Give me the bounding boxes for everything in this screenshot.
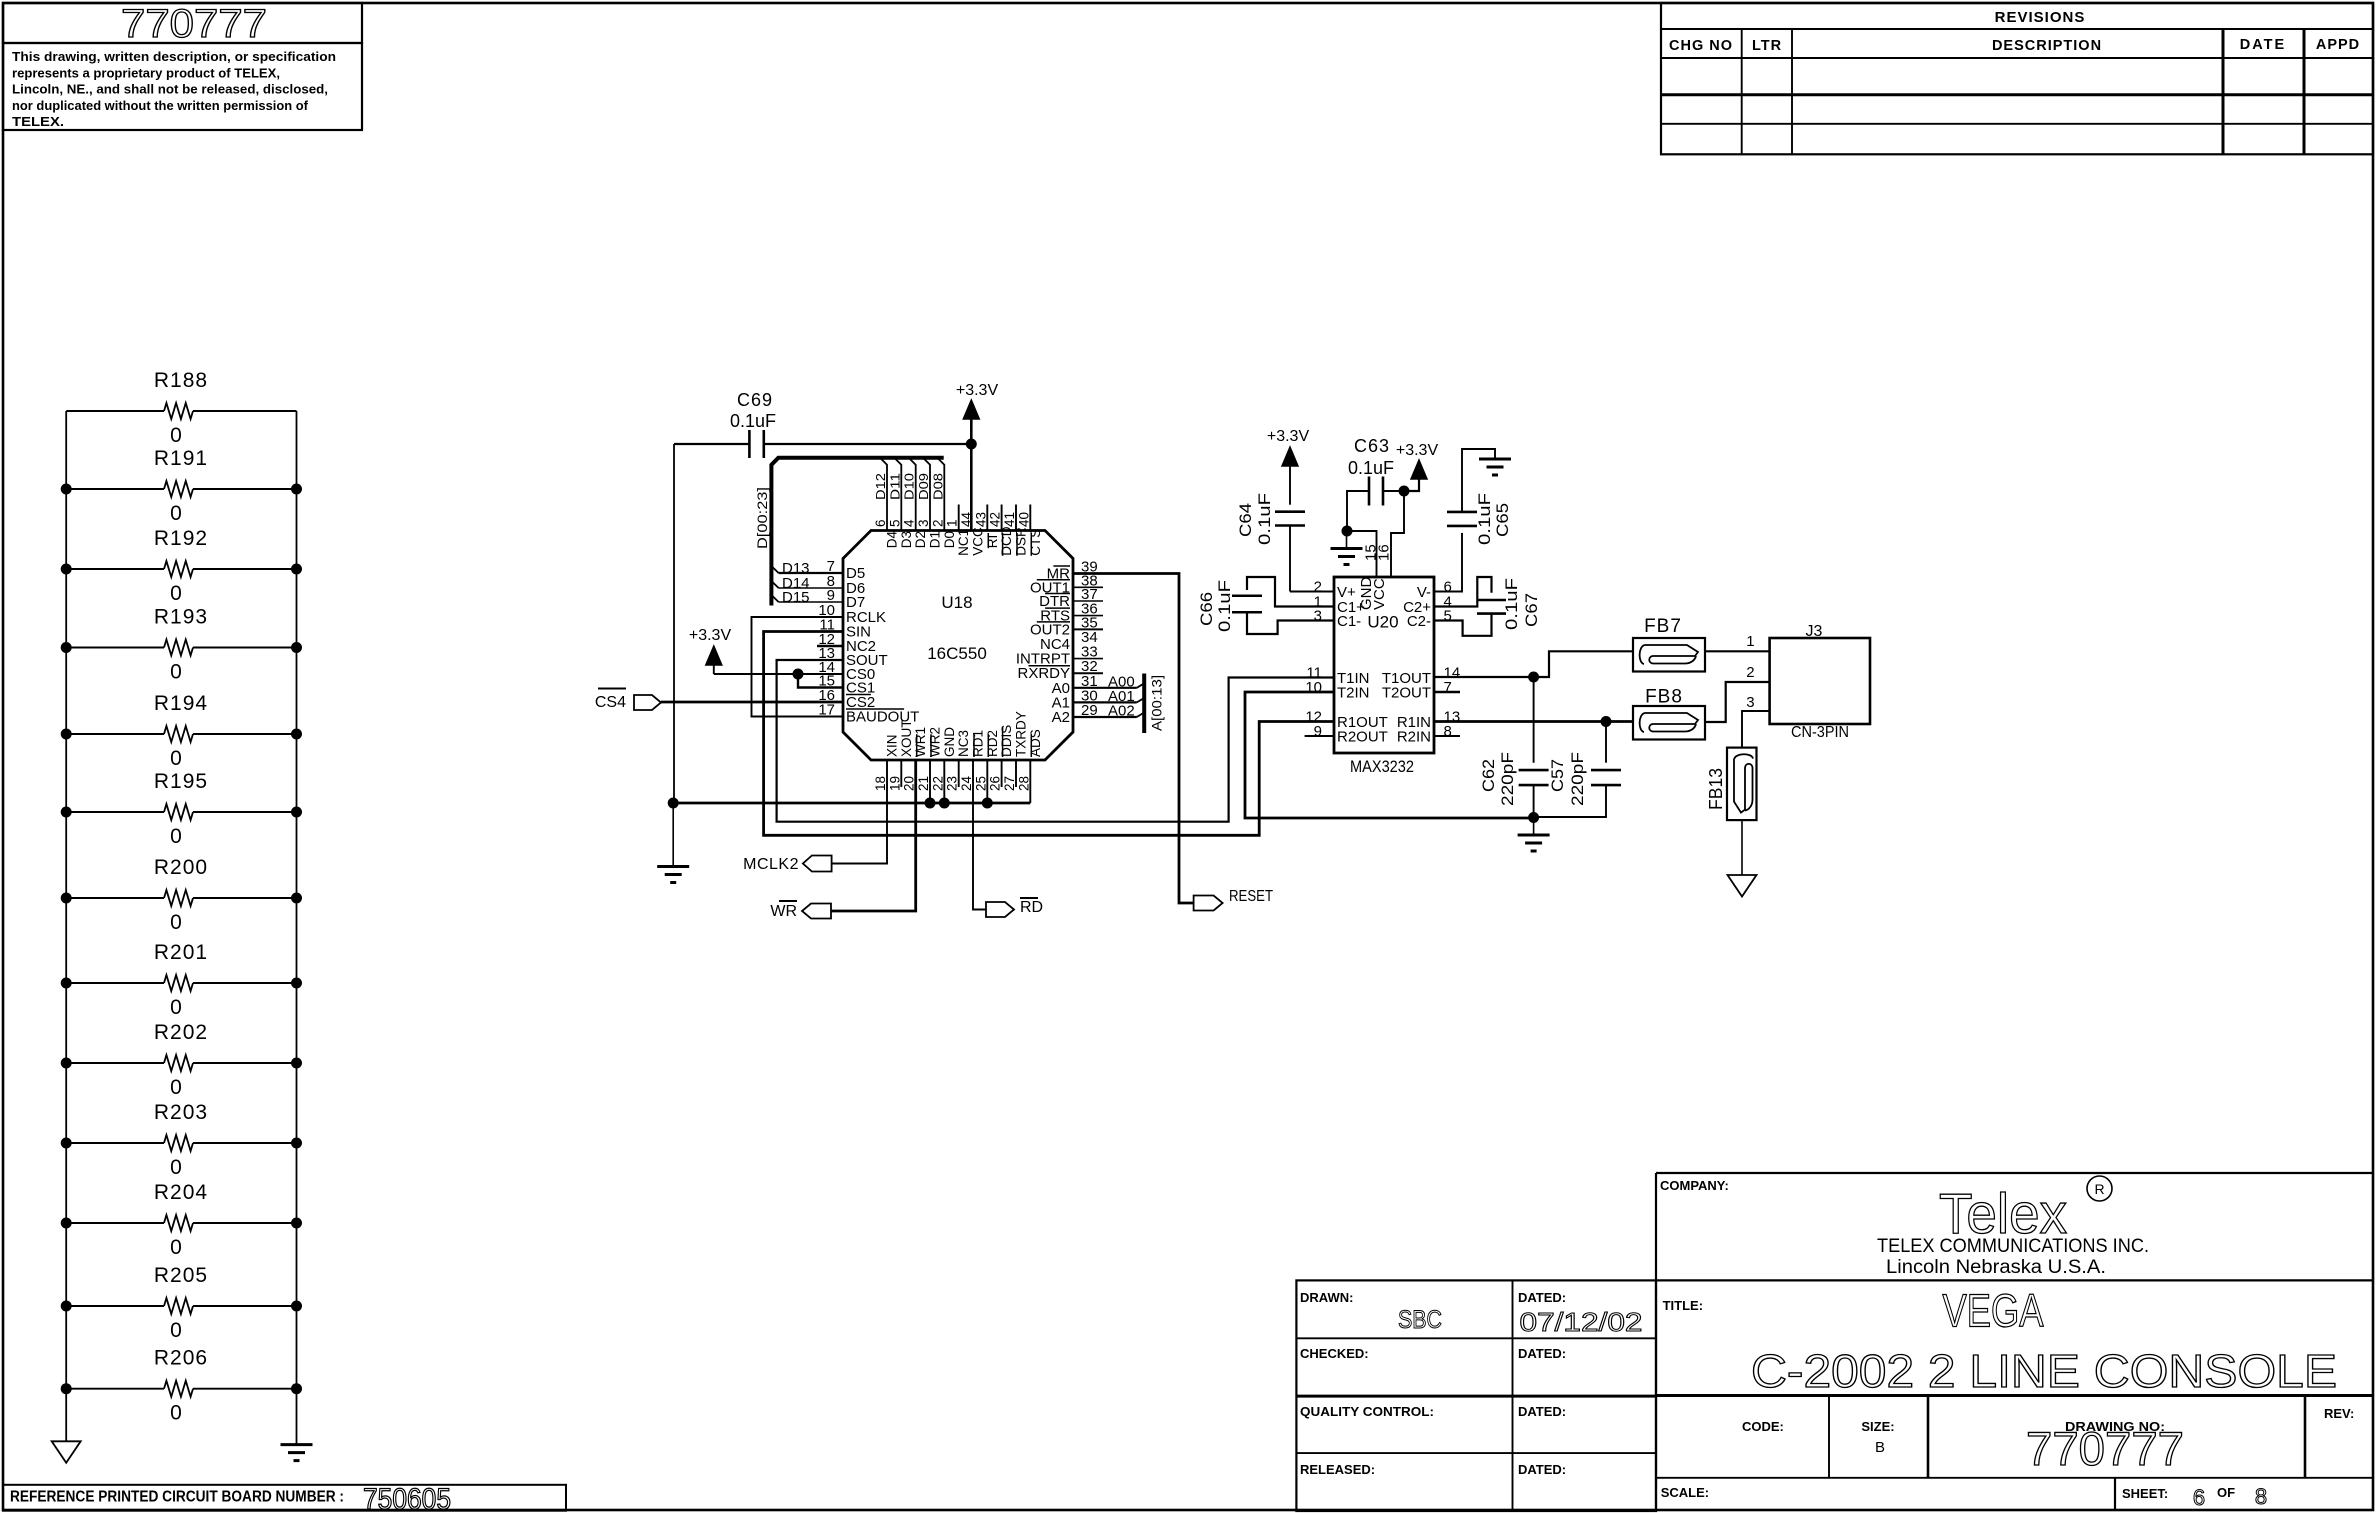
svg-text:FB8: FB8 [1645, 687, 1683, 708]
svg-text:REV:: REV: [2324, 1406, 2354, 1421]
svg-text:0.1uF: 0.1uF [1348, 458, 1394, 478]
svg-text:DCD: DCD [999, 526, 1014, 555]
resistor R195 [66, 811, 164, 813]
left rail wire [65, 411, 67, 1441]
svg-text:RD: RD [1020, 899, 1043, 916]
capacitor C57 220pF [1605, 722, 1607, 763]
svg-text:RESET: RESET [1229, 888, 1273, 905]
svg-text:D08: D08 [930, 473, 945, 500]
connector J3 CN-3PIN [1770, 638, 1870, 724]
svg-text:CODE:: CODE: [1742, 1419, 1784, 1434]
ground (earth) C65 [1479, 458, 1511, 461]
svg-text:1: 1 [1746, 633, 1754, 650]
svg-text:0: 0 [170, 911, 182, 934]
resistor R202 [66, 1062, 164, 1064]
svg-text:22: 22 [930, 776, 945, 791]
resistor R200 [66, 897, 164, 899]
svg-text:CHECKED:: CHECKED: [1300, 1346, 1369, 1361]
svg-text:C67: C67 [1522, 593, 1541, 627]
svg-text:TXRDY: TXRDY [1014, 711, 1029, 757]
wire FB8 to J3 pin 2 [1705, 682, 1770, 722]
junction dots R195 [61, 807, 72, 818]
capacitor C64 0.1uF and +3.3V (V+) [1282, 447, 1298, 466]
wire WR2 to ground net [929, 760, 931, 803]
reference pcb number strip [3, 1485, 566, 1511]
revisions table [1661, 3, 2373, 154]
svg-text:DATED:: DATED: [1518, 1346, 1566, 1361]
capacitor C65 0.1uF (V-) [1434, 533, 1462, 592]
svg-text:0: 0 [170, 661, 182, 684]
svg-text:C-2002 2 LINE CONSOLE: C-2002 2 LINE CONSOLE [1751, 1345, 2337, 1397]
svg-text:SHEET:: SHEET: [2122, 1486, 2168, 1501]
ferrite bead FB13 [1727, 748, 1757, 821]
svg-text:2: 2 [1746, 664, 1754, 681]
bus entries A00,A01,A02 from pins 31,30,29 [1073, 687, 1137, 689]
svg-text:0: 0 [170, 747, 182, 770]
bus entry wires D08-D12 to pins 2-6 [880, 458, 887, 531]
junction dot VCC [966, 439, 977, 450]
svg-text:DESCRIPTION: DESCRIPTION [1992, 38, 2102, 54]
svg-text:A[00:13]: A[00:13] [1149, 675, 1165, 731]
svg-text:CS4: CS4 [595, 694, 626, 711]
resistor R205 [66, 1305, 164, 1307]
svg-text:41: 41 [1002, 512, 1017, 527]
svg-text:6: 6 [873, 519, 888, 527]
svg-text:28: 28 [1016, 776, 1031, 791]
bus entry wires D13,D14,D15 to pins 7,8,9 [779, 572, 843, 574]
svg-text:A02: A02 [1108, 703, 1135, 720]
svg-text:R206: R206 [154, 1347, 208, 1370]
svg-text:TITLE:: TITLE: [1663, 1298, 1703, 1313]
power +3.3V (VCC) [963, 400, 979, 419]
svg-text:D0: D0 [942, 531, 957, 548]
svg-text:OF: OF [2217, 1485, 2235, 1500]
svg-text:D4: D4 [885, 530, 900, 548]
svg-text:C69: C69 [737, 390, 773, 410]
junction dots R191 [61, 484, 72, 495]
svg-text:R: R [2094, 1181, 2104, 1197]
svg-text:CN-3PIN: CN-3PIN [1791, 724, 1849, 741]
svg-text:DRAWN:: DRAWN: [1300, 1290, 1353, 1305]
svg-text:R192: R192 [154, 527, 208, 550]
svg-text:R2OUT: R2OUT [1337, 729, 1388, 746]
svg-text:Lincoln Nebraska U.S.A.: Lincoln Nebraska U.S.A. [1886, 1257, 2106, 1278]
ground (earth) C63 [1346, 531, 1348, 549]
wire C63 right to +3.3V junction [1383, 490, 1404, 492]
svg-text:COMPANY:: COMPANY: [1660, 1178, 1729, 1193]
svg-text:0: 0 [170, 424, 182, 447]
bus A[00:13] [1142, 674, 1146, 734]
svg-text:D12: D12 [873, 473, 888, 500]
svg-text:RELEASED:: RELEASED: [1300, 1462, 1375, 1477]
junction dots R202 [61, 1058, 72, 1069]
svg-text:C65: C65 [1493, 503, 1512, 537]
svg-text:40: 40 [1016, 512, 1031, 527]
resistor R191 [66, 488, 164, 490]
ground net wire (bottom of U18) [673, 802, 1030, 805]
svg-text:DATED:: DATED: [1518, 1290, 1566, 1305]
wire gnd junction to GND pin 15 [1347, 531, 1377, 577]
resistor R201 [66, 982, 164, 984]
svg-text:U20: U20 [1367, 613, 1398, 632]
svg-text:8: 8 [2255, 1484, 2267, 1509]
svg-text:SBC: SBC [1398, 1306, 1442, 1334]
svg-text:MAX3232: MAX3232 [1350, 757, 1414, 776]
svg-text:DATED:: DATED: [1518, 1462, 1566, 1477]
svg-text:8: 8 [1444, 723, 1452, 740]
svg-text:WR: WR [770, 903, 797, 920]
wire CS4 to CS2 [661, 701, 843, 704]
svg-text:D[00:23]: D[00:23] [754, 487, 770, 549]
svg-text:R200: R200 [154, 856, 208, 879]
svg-text:21: 21 [916, 776, 931, 791]
svg-text:R2IN: R2IN [1397, 729, 1431, 746]
wire RD2 to ground net [986, 760, 988, 803]
svg-text:4: 4 [902, 519, 917, 527]
svg-text:R205: R205 [154, 1264, 208, 1287]
junction dots R193 [61, 642, 72, 653]
wire GND to ground net [943, 760, 945, 803]
svg-text:D3: D3 [899, 531, 914, 548]
svg-text:J3: J3 [1806, 623, 1823, 640]
svg-text:770777: 770777 [2026, 1422, 2184, 1475]
svg-text:3: 3 [916, 519, 931, 527]
svg-text:7: 7 [1444, 679, 1452, 696]
svg-text:0: 0 [170, 1236, 182, 1259]
svg-text:REVISIONS: REVISIONS [1995, 9, 2086, 26]
svg-text:19: 19 [887, 776, 902, 791]
svg-text:APPD: APPD [2316, 37, 2360, 53]
svg-text:DATED:: DATED: [1518, 1404, 1566, 1419]
svg-text:DATE: DATE [2240, 37, 2286, 53]
svg-text:D11: D11 [887, 473, 902, 500]
svg-text:770777: 770777 [121, 2, 267, 46]
svg-text:R188: R188 [154, 369, 208, 392]
resistor R193 [66, 647, 164, 649]
ground (triangle) FB13 [1741, 820, 1743, 875]
junction dots R206 [61, 1383, 72, 1394]
svg-text:R193: R193 [154, 606, 208, 629]
capacitor C69 0.1uF [748, 430, 751, 458]
wire junction to VCC pin 16 [1391, 491, 1404, 577]
svg-text:3: 3 [1746, 694, 1754, 711]
svg-text:26: 26 [988, 776, 1003, 791]
svg-text:0.1uF: 0.1uF [1215, 580, 1234, 632]
svg-text:TELEX.: TELEX. [12, 115, 64, 129]
junction dots ground net [668, 798, 679, 809]
junction dots R203 [61, 1138, 72, 1149]
svg-text:16C550: 16C550 [927, 644, 987, 663]
svg-text:FB13: FB13 [1706, 768, 1726, 810]
svg-text:B: B [1875, 1439, 1885, 1456]
wire C63 left to ground [1347, 491, 1369, 531]
svg-text:C2-: C2- [1407, 613, 1431, 630]
svg-text:0: 0 [170, 1402, 182, 1425]
svg-text:CHG NO: CHG NO [1669, 38, 1733, 54]
wire CS0 junction to CS1 [798, 674, 843, 688]
right rail wire [296, 411, 298, 1445]
svg-text:D10: D10 [902, 473, 917, 500]
proprietary notice box [3, 43, 362, 130]
junction dots R201 [61, 978, 72, 989]
junction dots R205 [61, 1301, 72, 1312]
svg-text:+3.3V: +3.3V [689, 627, 732, 644]
svg-text:6: 6 [2193, 1485, 2205, 1510]
junction dot C63 gnd [1342, 526, 1353, 537]
ferrite bead FB8 [1633, 706, 1705, 740]
svg-text:C63: C63 [1354, 436, 1390, 456]
svg-text:DSR: DSR [1014, 527, 1029, 556]
junction dots R194 [61, 729, 72, 740]
junction dot C62/C57 ground [1528, 812, 1539, 823]
wire T1OUT to FB7 [1434, 676, 1534, 678]
resistor R194 [66, 733, 164, 735]
svg-text:LTR: LTR [1752, 38, 1782, 54]
svg-text:220pF: 220pF [1498, 752, 1517, 806]
svg-text:CTS: CTS [1028, 529, 1043, 556]
svg-text:XOUT: XOUT [899, 719, 914, 757]
svg-text:represents a proprietary produ: represents a proprietary product of TELE… [12, 66, 280, 80]
U20 MAX3232 RS-232 transceiver [1334, 577, 1434, 753]
svg-text:0.1uF: 0.1uF [1502, 578, 1521, 630]
svg-text:GND: GND [942, 727, 957, 757]
svg-text:0: 0 [170, 1076, 182, 1099]
svg-text:3: 3 [1314, 608, 1322, 625]
svg-text:R204: R204 [154, 1181, 208, 1204]
wire C69 right to +3.3V junction [764, 443, 972, 445]
svg-text:2: 2 [930, 519, 945, 527]
svg-text:R195: R195 [154, 770, 208, 793]
svg-text:D1: D1 [928, 531, 943, 548]
svg-text:0: 0 [170, 996, 182, 1019]
svg-text:25: 25 [973, 776, 988, 791]
resistor R192 [66, 568, 164, 570]
svg-text:This drawing, written descript: This drawing, written description, or sp… [12, 50, 336, 64]
svg-text:0.1uF: 0.1uF [1475, 493, 1494, 545]
capacitor C62 220pF [1533, 677, 1535, 763]
junction dots R204 [61, 1218, 72, 1229]
wire +3.3V to VCC pin 44 [970, 444, 973, 531]
U18 16C550 UART package [843, 531, 1073, 761]
svg-text:U18: U18 [941, 593, 972, 612]
junction dots R192 [61, 564, 72, 575]
signal flag RD and wire to RD1 [973, 760, 986, 910]
svg-text:0.1uF: 0.1uF [730, 411, 776, 431]
svg-text:5: 5 [1444, 608, 1452, 625]
svg-text:+3.3V: +3.3V [1267, 428, 1310, 445]
svg-text:D2: D2 [913, 531, 928, 548]
signal flag MCLK2 and wire to XIN [832, 760, 887, 864]
svg-text:D15: D15 [782, 589, 810, 606]
capacitor C67 0.1uF (C2+/C2-) [1434, 577, 1492, 607]
signal flag RESET and wire from MR [1073, 574, 1194, 904]
svg-text:16: 16 [1376, 544, 1393, 561]
svg-text:XIN: XIN [885, 734, 900, 757]
svg-text:C1-: C1- [1337, 613, 1361, 630]
junction dot T1OUT [1528, 672, 1539, 683]
resistor R203 [66, 1142, 164, 1144]
svg-text:750605: 750605 [363, 1483, 451, 1513]
svg-text:A2: A2 [1052, 709, 1070, 726]
junction dots R200 [61, 893, 72, 904]
svg-text:ADS: ADS [1028, 729, 1043, 757]
wire SOUT net (to T1IN) [777, 660, 1334, 822]
signal flag WR and wire to WR1 [831, 760, 916, 911]
svg-text:R194: R194 [154, 692, 208, 715]
svg-text:C62: C62 [1479, 759, 1498, 792]
svg-text:VCC: VCC [1371, 578, 1388, 610]
svg-text:FB7: FB7 [1644, 616, 1682, 637]
svg-text:MCLK2: MCLK2 [743, 856, 799, 873]
bus D[00:23] [771, 458, 943, 606]
junction dot R1IN [1601, 716, 1612, 727]
svg-text:T2OUT: T2OUT [1382, 685, 1431, 702]
svg-text:5: 5 [887, 519, 902, 527]
U18 unconnected pin stubs [817, 645, 843, 647]
svg-text:QUALITY CONTROL:: QUALITY CONTROL: [1300, 1404, 1434, 1419]
svg-text:18: 18 [873, 776, 888, 791]
svg-text:1: 1 [945, 519, 960, 527]
svg-text:VCC: VCC [971, 527, 986, 556]
power +3.3V (U20 VCC) [1411, 460, 1427, 479]
wire FB7 to J3 pin 1 [1705, 650, 1770, 652]
svg-text:9: 9 [1314, 723, 1322, 740]
wire +3.3V to CS0 [714, 673, 843, 675]
ground (triangle) left rail [52, 1441, 81, 1463]
ground (earth) C62/C57 [1533, 818, 1535, 836]
svg-text:RD2: RD2 [985, 730, 1000, 757]
ferrite bead FB7 [1633, 638, 1705, 672]
U20 unconnected stubs R2OUT T2OUT R2IN [1305, 735, 1334, 737]
svg-text:0: 0 [170, 502, 182, 525]
ground (earth) U18 [672, 803, 674, 867]
signal flag CS4 [634, 695, 661, 710]
capacitor C63 0.1uF (GND/VCC) [1368, 477, 1371, 506]
resistor R204 [66, 1222, 164, 1224]
wire C69 left to ground rail [674, 443, 749, 445]
wire SIN net (to R1OUT) [764, 632, 1334, 836]
svg-text:24: 24 [959, 775, 974, 791]
wire T2IN to ground junction [1245, 692, 1534, 818]
wire R1IN to FB8 [1434, 720, 1606, 723]
wire J3 pin 3 to FB13 [1742, 711, 1770, 748]
svg-text:42: 42 [988, 512, 1003, 527]
svg-text:220pF: 220pF [1568, 752, 1587, 806]
svg-text:0: 0 [170, 1319, 182, 1342]
svg-text:NC1: NC1 [956, 529, 971, 556]
svg-text:T2IN: T2IN [1337, 685, 1370, 702]
svg-text:D09: D09 [916, 473, 931, 500]
svg-text:NC3: NC3 [956, 730, 971, 757]
svg-text:+3.3V: +3.3V [956, 382, 999, 399]
svg-text:C64: C64 [1236, 503, 1255, 537]
capacitor C66 0.1uF (C1+/C1-) [1247, 577, 1334, 607]
svg-text:07/12/02: 07/12/02 [1520, 1307, 1643, 1337]
svg-text:DDIS: DDIS [999, 725, 1014, 757]
junction dot CS0 [793, 669, 804, 680]
junction dot VCC U20 [1399, 486, 1410, 497]
svg-text:R201: R201 [154, 941, 208, 964]
svg-text:10: 10 [1305, 679, 1322, 696]
svg-text:43: 43 [973, 512, 988, 527]
svg-text:C66: C66 [1197, 592, 1216, 626]
svg-text:0.1uF: 0.1uF [1255, 493, 1274, 545]
wire RCLK-BAUDOUT loop [752, 617, 844, 717]
svg-text:0: 0 [170, 825, 182, 848]
svg-text:0: 0 [170, 1156, 182, 1179]
drawing number box 770777 (top left) [3, 3, 362, 43]
svg-text:RD1: RD1 [971, 730, 986, 757]
svg-text:SCALE:: SCALE: [1661, 1485, 1709, 1500]
title block [1656, 1172, 2373, 1174]
svg-text:WR1: WR1 [913, 727, 928, 757]
resistor R188 [66, 410, 164, 412]
svg-text:C57: C57 [1548, 759, 1567, 792]
svg-text:23: 23 [945, 776, 960, 791]
svg-text:VEGA: VEGA [1943, 1285, 2044, 1337]
svg-text:RI: RI [985, 535, 1000, 549]
svg-text:R191: R191 [154, 447, 208, 470]
svg-text:REFERENCE PRINTED CIRCUIT BOAR: REFERENCE PRINTED CIRCUIT BOARD NUMBER : [10, 1489, 344, 1506]
svg-text:R203: R203 [154, 1101, 208, 1124]
svg-text:0: 0 [170, 582, 182, 605]
svg-text:nor duplicated without the wri: nor duplicated without the written permi… [12, 99, 309, 113]
svg-text:27: 27 [1002, 776, 1017, 791]
svg-text:Lincoln, NE., and shall not be: Lincoln, NE., and shall not be released,… [12, 83, 328, 97]
svg-text:+3.3V: +3.3V [1396, 442, 1439, 459]
ground (earth) right rail [281, 1443, 313, 1446]
power +3.3V (CS0) [706, 646, 722, 665]
svg-text:WR2: WR2 [928, 727, 943, 757]
svg-text:SIZE:: SIZE: [1861, 1419, 1894, 1434]
resistor R206 [66, 1388, 164, 1390]
svg-text:R202: R202 [154, 1021, 208, 1044]
svg-text:TELEX COMMUNICATIONS INC.: TELEX COMMUNICATIONS INC. [1877, 1236, 2149, 1257]
